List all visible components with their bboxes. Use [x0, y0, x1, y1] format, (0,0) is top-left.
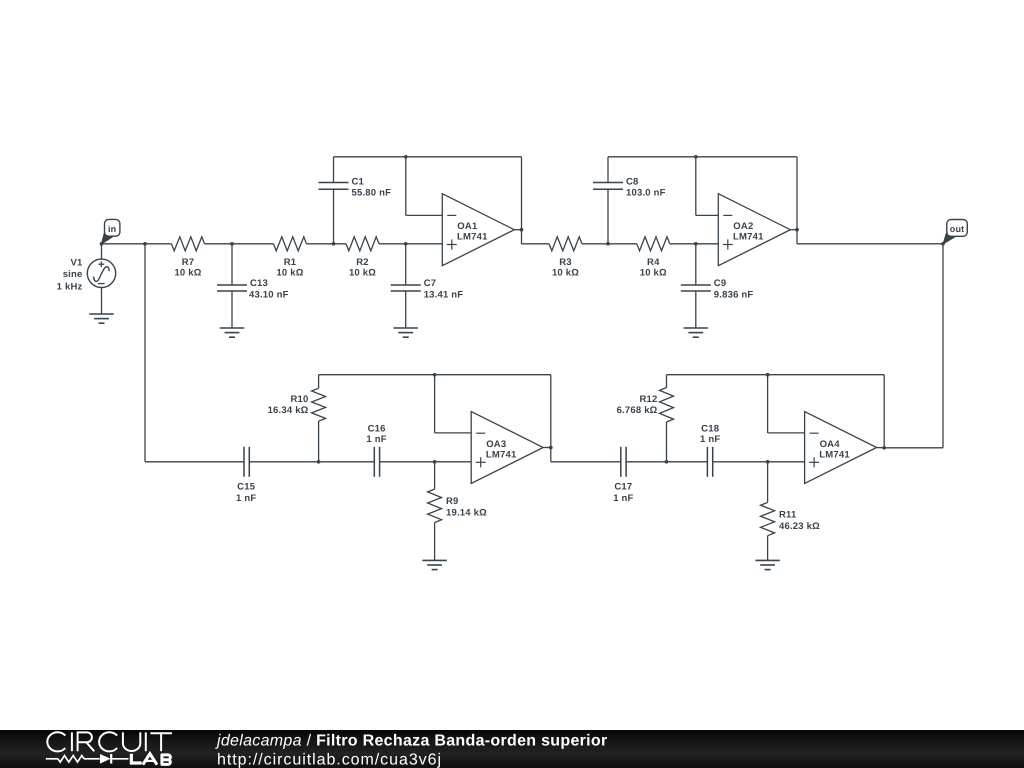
svg-text:jdelacampa / Filtro Rechaza Ba: jdelacampa / Filtro Rechaza Banda-orden …	[215, 732, 608, 749]
svg-text:http://circuitlab.com/cua3v6j: http://circuitlab.com/cua3v6j	[217, 751, 442, 768]
